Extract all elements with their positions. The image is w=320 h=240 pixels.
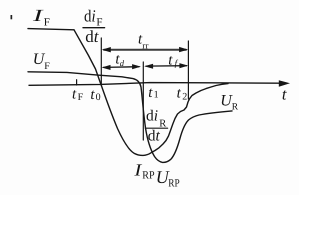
svg-text:dt: dt	[148, 128, 161, 145]
axis tick remnant top-left	[11, 15, 13, 19]
label t_rr	[138, 32, 149, 51]
svg-text:F: F	[44, 61, 50, 72]
svg-text:F: F	[44, 17, 50, 29]
wire: vertical boundary at t0	[100, 38, 102, 85]
svg-text:1: 1	[154, 90, 159, 101]
label t_f	[168, 53, 178, 69]
svg-text:0: 0	[96, 92, 101, 103]
I_F level line	[28, 29, 74, 30]
tick at t_F	[76, 80, 78, 85]
svg-text:RP: RP	[142, 170, 154, 182]
label I_RP	[133, 160, 154, 181]
svg-text:dt: dt	[85, 27, 100, 46]
svg-text:I: I	[31, 6, 44, 25]
svg-text:2: 2	[182, 92, 187, 103]
label di_R/dt fraction	[145, 107, 167, 144]
svg-text:t: t	[282, 85, 287, 104]
wire: vertical line at t1	[142, 62, 144, 140]
current falling slope di_F/dt line	[74, 30, 101, 85]
current waveform below axis: dip to I_RP and recovery	[101, 84, 228, 156]
svg-text:d: d	[120, 58, 125, 68]
svg-text:di: di	[146, 107, 158, 124]
label t_1	[148, 85, 158, 101]
svg-text:di: di	[84, 6, 96, 25]
label U_R	[220, 93, 239, 113]
label I_F	[31, 6, 50, 28]
label U_RP	[156, 167, 180, 189]
svg-text:F: F	[78, 92, 84, 103]
t_rr measurement arrow	[102, 47, 188, 53]
label t_2	[177, 85, 188, 102]
label t_F	[72, 87, 84, 103]
label di_F/dt fraction	[83, 6, 105, 46]
svg-text:t: t	[148, 85, 153, 101]
svg-text:R: R	[232, 102, 239, 112]
time axis with arrow	[29, 80, 290, 87]
wire: vertical boundary at t2	[187, 41, 189, 99]
svg-text:RP: RP	[168, 177, 179, 189]
svg-text:t: t	[177, 85, 182, 101]
t_d measurement arrow	[102, 64, 141, 70]
svg-text:rr: rr	[142, 40, 148, 50]
voltage waveform U: forward level, reverse spike to U_RP, recovery to U_R	[28, 72, 232, 163]
label t_0	[90, 87, 100, 103]
label t_d	[115, 51, 124, 68]
label U_F	[33, 51, 51, 72]
t_f measurement arrow	[144, 63, 188, 69]
svg-text:t: t	[72, 87, 77, 103]
